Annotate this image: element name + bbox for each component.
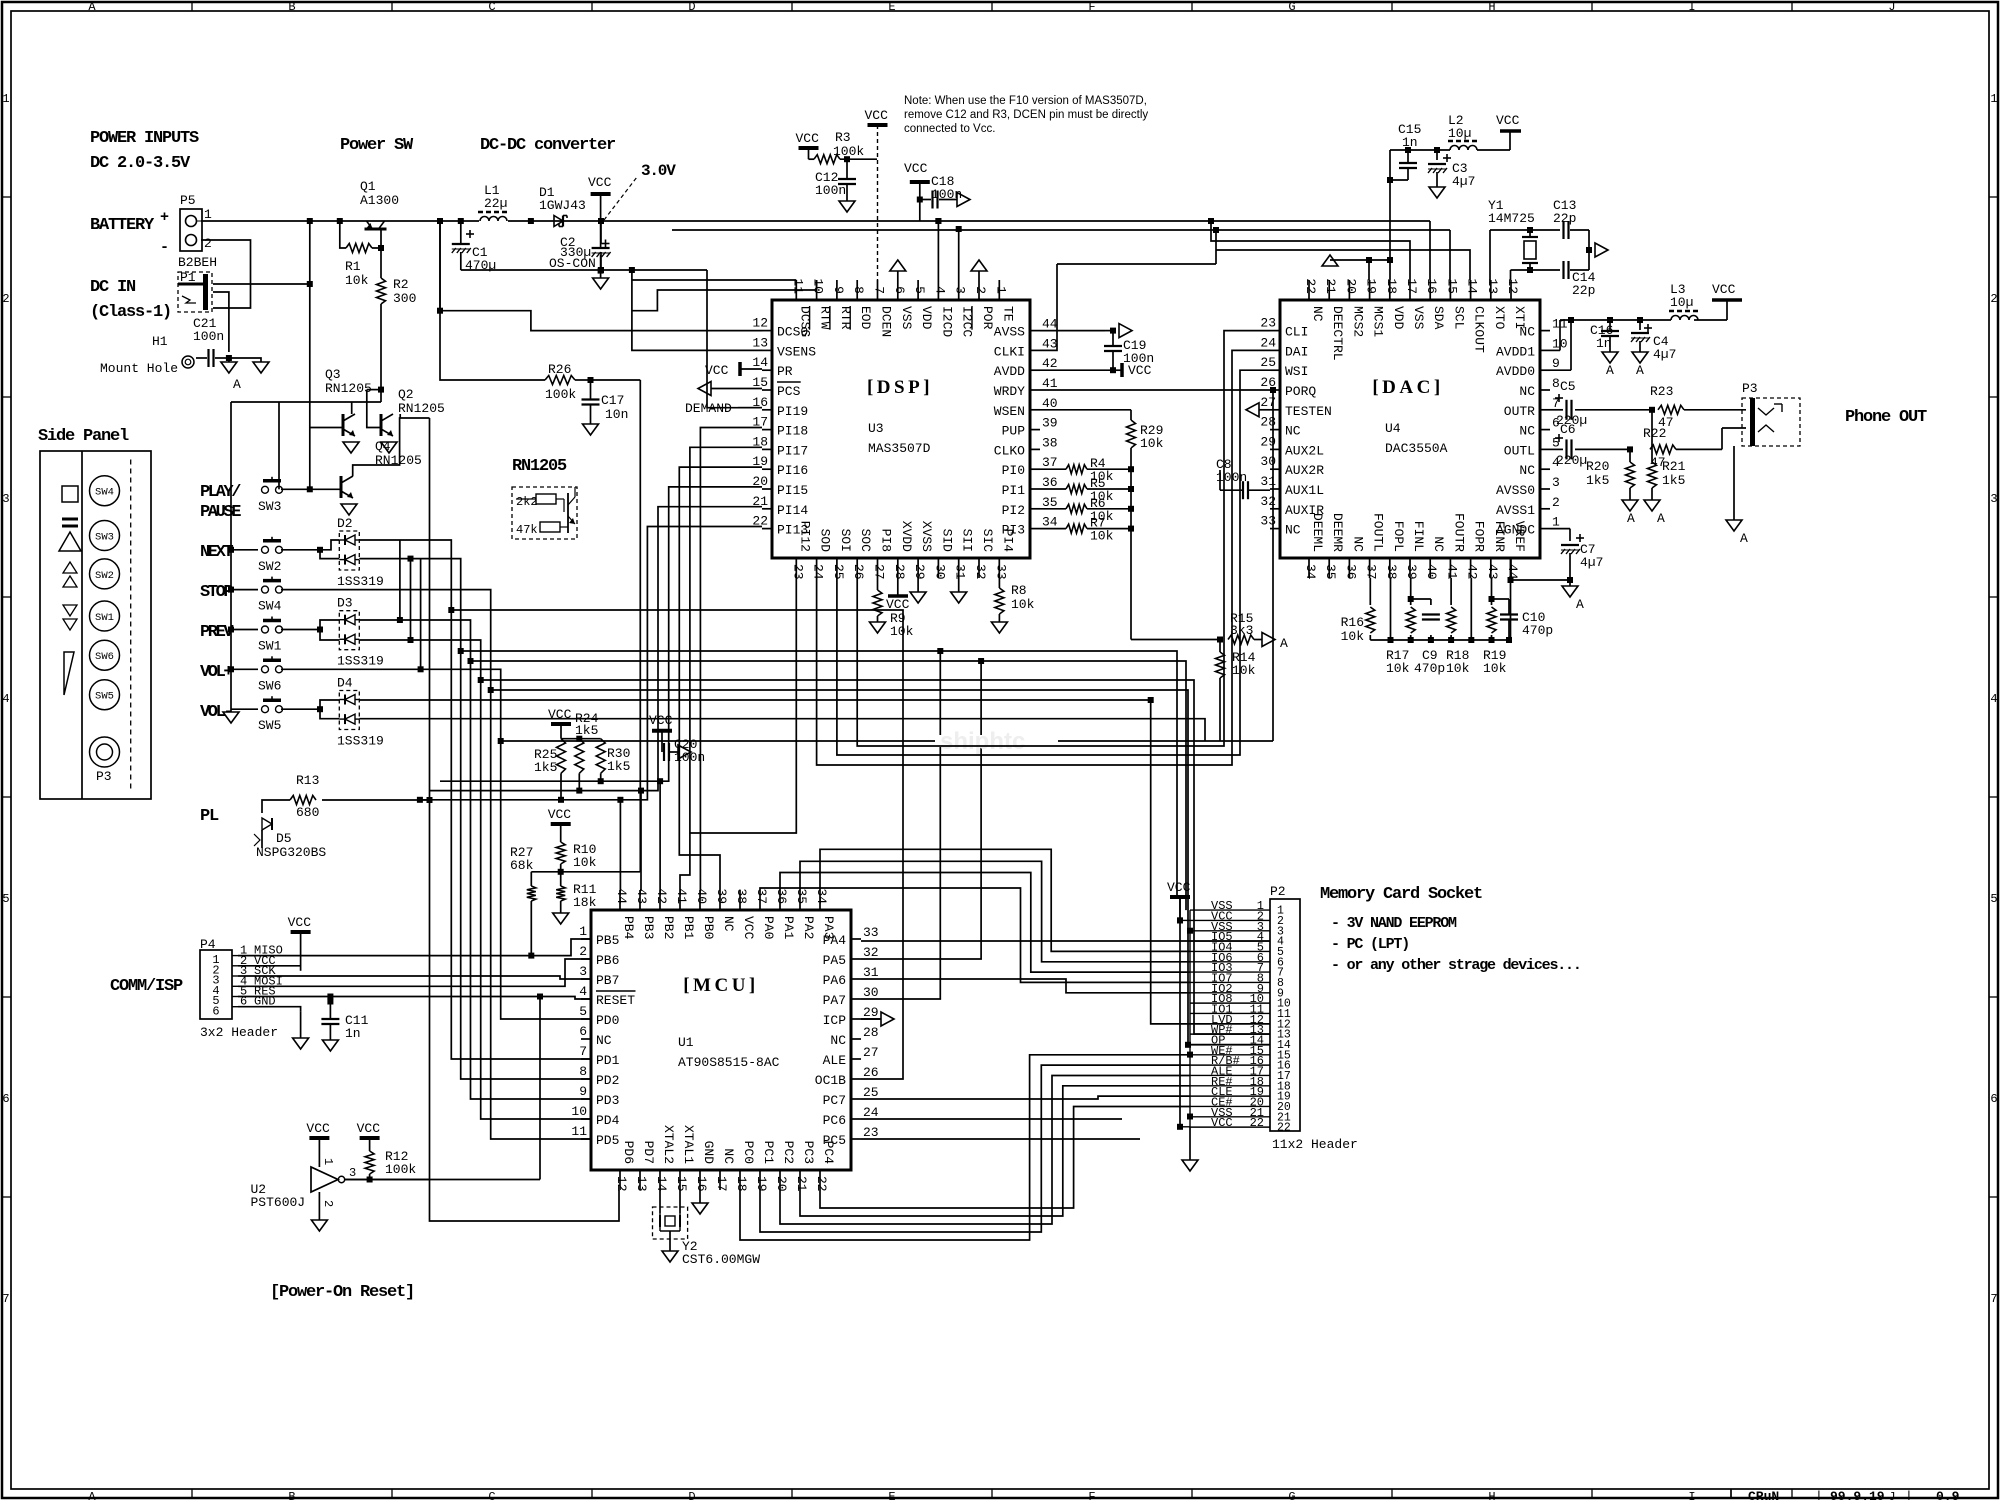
svg-text:PB0: PB0 [701, 916, 716, 939]
svg-text:A: A [1280, 636, 1288, 651]
svg-text:NC: NC [1310, 306, 1325, 322]
svg-text:9: 9 [831, 286, 846, 294]
svg-text:XTAL2: XTAL2 [661, 1125, 676, 1164]
svg-text:39: 39 [1042, 416, 1058, 431]
svg-text:CRuN: CRuN [1748, 1489, 1779, 1500]
svg-text:A: A [1740, 531, 1748, 546]
svg-text:33: 33 [863, 925, 879, 940]
svg-text:DCEN: DCEN [879, 306, 894, 337]
svg-text:PI15: PI15 [777, 483, 808, 498]
svg-text:R23: R23 [1650, 384, 1673, 399]
svg-text:38: 38 [1384, 564, 1399, 580]
svg-text:1n: 1n [345, 1026, 361, 1041]
svg-text:PC6: PC6 [823, 1113, 846, 1128]
svg-text:1k5: 1k5 [534, 760, 557, 775]
svg-text:RESET: RESET [596, 993, 635, 1008]
svg-text:100k: 100k [545, 387, 576, 402]
svg-text:100n: 100n [193, 329, 224, 344]
svg-text:2k2: 2k2 [516, 495, 538, 509]
svg-text:10k: 10k [1232, 663, 1256, 678]
svg-text:Note: When use the F10 version: Note: When use the F10 version of MAS350… [904, 95, 1147, 107]
svg-text:40: 40 [1424, 564, 1439, 580]
svg-text:NC: NC [596, 1033, 612, 1048]
svg-text:25: 25 [863, 1085, 879, 1100]
svg-text:42: 42 [654, 888, 669, 904]
svg-text:39: 39 [714, 888, 729, 904]
svg-text:NC: NC [1519, 463, 1535, 478]
svg-text:FOUTR: FOUTR [1451, 513, 1466, 552]
svg-text:I: I [1688, 0, 1695, 14]
svg-text:NC: NC [1519, 384, 1535, 399]
svg-text:PD5: PD5 [596, 1133, 619, 1148]
svg-text:SOI: SOI [838, 529, 853, 552]
svg-text:SW3: SW3 [95, 532, 114, 544]
svg-text:D4: D4 [337, 676, 353, 691]
svg-text:U3: U3 [868, 421, 884, 436]
svg-text:35: 35 [794, 888, 809, 904]
svg-text:SW2: SW2 [95, 570, 114, 582]
svg-text:4: 4 [932, 286, 947, 294]
svg-text:OC1B: OC1B [815, 1073, 846, 1088]
svg-text:GND: GND [701, 1141, 716, 1165]
svg-text:1: 1 [993, 286, 1008, 294]
svg-text:PB3: PB3 [641, 916, 656, 939]
svg-text:6: 6 [892, 286, 907, 294]
svg-text:17: 17 [714, 1176, 729, 1192]
svg-text:OS-CON: OS-CON [549, 256, 596, 271]
svg-text:VCC: VCC [1712, 282, 1736, 297]
svg-text:PD0: PD0 [596, 1013, 619, 1028]
svg-text:10n: 10n [605, 407, 628, 422]
svg-text:VCC: VCC [306, 1121, 330, 1136]
svg-text:32: 32 [973, 564, 988, 580]
svg-text:A: A [1657, 511, 1665, 526]
svg-text:J: J [1888, 1490, 1895, 1500]
svg-text:3: 3 [1552, 475, 1560, 490]
svg-text:PC3: PC3 [801, 1141, 816, 1164]
svg-text:RN1205: RN1205 [512, 457, 567, 476]
svg-text:5: 5 [579, 1004, 587, 1019]
svg-text:3: 3 [953, 286, 968, 294]
svg-text:PAUSE: PAUSE [200, 503, 241, 522]
svg-text:AVSS1: AVSS1 [1496, 503, 1535, 518]
svg-text:SW6: SW6 [95, 651, 114, 663]
svg-text:1: 1 [2, 92, 9, 106]
svg-text:shiphtc: shiphtc [940, 728, 1025, 755]
svg-text:ALE: ALE [823, 1053, 847, 1068]
svg-text:5: 5 [2, 892, 9, 906]
svg-text:WSI: WSI [1285, 364, 1308, 379]
svg-text:PI12: PI12 [797, 521, 812, 552]
svg-text:22: 22 [814, 1176, 829, 1192]
svg-text:100n: 100n [815, 183, 846, 198]
svg-text:10: 10 [811, 278, 826, 294]
svg-text:Mount Hole: Mount Hole [100, 361, 178, 376]
svg-text:3: 3 [579, 964, 587, 979]
svg-text:DC 2.0-3.5V: DC 2.0-3.5V [90, 154, 191, 173]
svg-text:8: 8 [851, 286, 866, 294]
svg-text:SID: SID [939, 529, 954, 553]
svg-text:AUX2R: AUX2R [1285, 463, 1324, 478]
svg-text:PD4: PD4 [596, 1113, 620, 1128]
svg-text:23: 23 [790, 564, 805, 580]
svg-text:PORQ: PORQ [1285, 384, 1316, 399]
svg-text:PL: PL [200, 807, 219, 826]
svg-text:4: 4 [2, 692, 9, 706]
svg-text:WSEN: WSEN [994, 404, 1025, 419]
svg-text:VCC: VCC [588, 175, 612, 190]
svg-text:8: 8 [579, 1064, 587, 1079]
svg-text:Side Panel: Side Panel [38, 427, 129, 446]
svg-text:U1: U1 [678, 1035, 694, 1050]
svg-text:2: 2 [204, 236, 212, 251]
svg-text:36: 36 [1042, 475, 1058, 490]
svg-text:680: 680 [296, 805, 319, 820]
svg-text:SW4: SW4 [95, 487, 114, 499]
svg-text:36: 36 [1343, 564, 1358, 580]
svg-text:F: F [1088, 0, 1095, 14]
svg-text:PB6: PB6 [596, 953, 619, 968]
svg-text:14: 14 [752, 355, 768, 370]
svg-text:10k: 10k [1011, 597, 1035, 612]
svg-text:FOPR: FOPR [1472, 521, 1487, 552]
svg-text:VDD: VDD [919, 306, 934, 330]
svg-text:9: 9 [1552, 356, 1560, 371]
svg-text:FINR: FINR [1492, 521, 1507, 552]
svg-text:18k: 18k [573, 895, 597, 910]
svg-text:14: 14 [1465, 278, 1480, 294]
svg-text:D3: D3 [337, 596, 353, 611]
svg-text:C: C [488, 0, 495, 14]
svg-text:AVSS: AVSS [994, 325, 1025, 340]
svg-text:25: 25 [1260, 355, 1276, 370]
svg-text:PA1: PA1 [781, 916, 796, 940]
svg-text:1: 1 [579, 924, 587, 939]
svg-text:AVDD0: AVDD0 [1496, 364, 1535, 379]
svg-text:99.9.19: 99.9.19 [1830, 1489, 1885, 1500]
svg-text:R3: R3 [835, 130, 851, 145]
svg-text:34: 34 [1042, 515, 1058, 530]
svg-text:4µ7: 4µ7 [1580, 555, 1603, 570]
svg-text:22p: 22p [1553, 211, 1576, 226]
svg-text:DAC3550A: DAC3550A [1385, 441, 1448, 456]
svg-text:220µ: 220µ [1556, 453, 1587, 468]
svg-text:44: 44 [614, 888, 629, 904]
svg-text:Q2: Q2 [398, 387, 414, 402]
svg-text:A: A [1576, 597, 1584, 612]
svg-text:Q4: Q4 [375, 439, 391, 454]
svg-text:PI0: PI0 [1002, 463, 1025, 478]
svg-text:1: 1 [1552, 515, 1560, 530]
svg-text:5: 5 [1990, 892, 1997, 906]
svg-text:20: 20 [774, 1176, 789, 1192]
svg-text:P2: P2 [1270, 884, 1286, 899]
svg-text:22: 22 [1277, 1122, 1291, 1135]
svg-text:[DSP]: [DSP] [867, 377, 933, 398]
svg-text:SOD: SOD [818, 529, 833, 553]
svg-text:NC: NC [1431, 536, 1446, 552]
svg-text:[Power-On Reset]: [Power-On Reset] [270, 1283, 414, 1302]
svg-text:VSS: VSS [899, 306, 914, 330]
svg-text:27: 27 [863, 1045, 879, 1060]
svg-text:4µ7: 4µ7 [1452, 174, 1475, 189]
svg-text:EOD: EOD [858, 306, 873, 330]
svg-text:VOL+: VOL+ [200, 663, 233, 682]
svg-text:J: J [1888, 0, 1895, 14]
svg-text:PB7: PB7 [596, 973, 619, 988]
svg-text:0.9: 0.9 [1936, 1489, 1960, 1500]
svg-text:PST600J: PST600J [251, 1195, 306, 1210]
svg-text:33: 33 [993, 564, 1008, 580]
svg-text:+: + [160, 209, 169, 226]
svg-text:6: 6 [1990, 1092, 1997, 1106]
svg-text:[DAC]: [DAC] [1372, 377, 1443, 398]
svg-text:1SS319: 1SS319 [337, 574, 384, 589]
svg-text:PB1: PB1 [681, 916, 696, 940]
svg-text:PUP: PUP [1002, 424, 1026, 439]
svg-text:R22: R22 [1643, 426, 1666, 441]
svg-text:SW1: SW1 [258, 639, 282, 654]
svg-text:470p: 470p [1522, 623, 1553, 638]
svg-text:Q3: Q3 [325, 367, 341, 382]
svg-text:1: 1 [321, 1158, 335, 1165]
svg-text:R16: R16 [1341, 615, 1364, 630]
svg-text:24: 24 [1260, 335, 1276, 350]
svg-text:1: 1 [1990, 92, 1997, 106]
svg-text:CLI: CLI [1285, 325, 1308, 340]
svg-text:35: 35 [1042, 495, 1058, 510]
svg-text:10: 10 [571, 1104, 587, 1119]
svg-text:PI4: PI4 [1000, 529, 1015, 553]
svg-text:31: 31 [863, 965, 879, 980]
svg-text:PI16: PI16 [777, 463, 808, 478]
svg-text:16: 16 [1424, 278, 1439, 294]
svg-text:TE: TE [1000, 306, 1015, 322]
svg-text:PI14: PI14 [777, 503, 808, 518]
svg-text:6: 6 [579, 1024, 587, 1039]
svg-text:NC: NC [721, 916, 736, 932]
svg-text:8: 8 [1552, 376, 1560, 391]
svg-text:WRDY: WRDY [994, 384, 1025, 399]
svg-text:SIC: SIC [980, 529, 995, 553]
svg-text:P5: P5 [180, 193, 196, 208]
svg-text:DEEMR: DEEMR [1330, 513, 1345, 552]
svg-text:NC: NC [1285, 523, 1301, 538]
svg-text:MCS1: MCS1 [1371, 306, 1386, 337]
svg-text:1k5: 1k5 [1662, 473, 1685, 488]
svg-text:BATTERY: BATTERY [90, 216, 155, 235]
svg-text:6: 6 [2, 1092, 9, 1106]
svg-text:R21: R21 [1662, 459, 1686, 474]
svg-text:40: 40 [1042, 396, 1058, 411]
svg-text:PI2: PI2 [1002, 503, 1025, 518]
svg-text:42: 42 [1042, 356, 1058, 371]
svg-text:2: 2 [579, 944, 587, 959]
svg-text:[MCU]: [MCU] [683, 975, 759, 996]
svg-text:22µ: 22µ [484, 196, 507, 211]
svg-text:34: 34 [814, 888, 829, 904]
svg-text:47k: 47k [516, 523, 538, 537]
svg-text:PI8: PI8 [879, 529, 894, 552]
svg-text:2: 2 [1990, 292, 1997, 306]
svg-text:4: 4 [579, 984, 587, 999]
svg-text:34: 34 [1303, 564, 1318, 580]
svg-text:SOC: SOC [858, 529, 873, 553]
svg-text:26: 26 [851, 564, 866, 580]
svg-text:1k5: 1k5 [607, 759, 630, 774]
svg-text:NC: NC [721, 1148, 736, 1164]
svg-text:30: 30 [863, 985, 879, 1000]
svg-text:PD6: PD6 [621, 1141, 636, 1164]
svg-text:PC7: PC7 [823, 1093, 846, 1108]
svg-text:PA3: PA3 [821, 916, 836, 939]
svg-text:VCC: VCC [548, 807, 572, 822]
svg-text:28: 28 [863, 1025, 879, 1040]
svg-text:12: 12 [752, 316, 768, 331]
svg-text:PA5: PA5 [823, 953, 846, 968]
svg-text:35: 35 [1323, 564, 1338, 580]
svg-text:19: 19 [754, 1176, 769, 1192]
svg-text:PC0: PC0 [741, 1141, 756, 1164]
svg-text:CST6.00MGW: CST6.00MGW [682, 1252, 760, 1267]
svg-text:5: 5 [912, 286, 927, 294]
svg-text:3.0V: 3.0V [641, 162, 676, 180]
svg-text:SW2: SW2 [258, 559, 281, 574]
svg-text:27: 27 [872, 564, 887, 580]
svg-text:OUTL: OUTL [1504, 443, 1535, 458]
svg-text:VCC: VCC [796, 131, 820, 146]
svg-text:37: 37 [1364, 564, 1379, 580]
svg-text:43: 43 [1042, 336, 1058, 351]
svg-text:POR: POR [980, 306, 995, 330]
svg-text:3: 3 [1990, 492, 1997, 506]
svg-text:NC: NC [1519, 424, 1535, 439]
svg-text:1SS319: 1SS319 [337, 734, 384, 749]
svg-text:D: D [688, 0, 695, 14]
svg-text:4: 4 [1990, 692, 1997, 706]
svg-text:23: 23 [1260, 316, 1276, 331]
svg-text:10k: 10k [1140, 436, 1164, 451]
svg-text:PA0: PA0 [761, 916, 776, 939]
svg-text:A: A [1636, 363, 1644, 378]
svg-text:SDA: SDA [1431, 306, 1446, 330]
svg-text:7: 7 [2, 1292, 9, 1306]
svg-text:NC: NC [830, 1033, 846, 1048]
svg-text:XTAL1: XTAL1 [681, 1125, 696, 1164]
svg-text:AUX2L: AUX2L [1285, 443, 1324, 458]
svg-text:A: A [1627, 511, 1635, 526]
svg-text:43: 43 [1485, 564, 1500, 580]
svg-text:VCC: VCC [865, 108, 889, 123]
svg-text:VCC: VCC [1496, 113, 1520, 128]
svg-text:NSPG320BS: NSPG320BS [256, 845, 326, 860]
svg-text:NC: NC [1350, 536, 1365, 552]
svg-text:19: 19 [1364, 278, 1379, 294]
svg-text:FOUTL: FOUTL [1371, 513, 1386, 552]
svg-text:TESTEN: TESTEN [1285, 404, 1332, 419]
svg-text:31: 31 [953, 564, 968, 580]
svg-text:- 3V NAND EEPROM: - 3V NAND EEPROM [1331, 915, 1457, 932]
svg-text:2: 2 [2, 292, 9, 306]
svg-text:SW5: SW5 [95, 691, 114, 703]
svg-text:10k: 10k [890, 624, 914, 639]
svg-text:39: 39 [1404, 564, 1419, 580]
svg-text:SCL: SCL [1451, 306, 1466, 329]
svg-text:E: E [888, 1490, 895, 1500]
svg-text:29: 29 [863, 1005, 879, 1020]
svg-text:VCC: VCC [548, 707, 572, 722]
svg-text:D2: D2 [337, 516, 353, 531]
svg-text:A: A [1606, 363, 1614, 378]
svg-text:3: 3 [349, 1166, 356, 1180]
svg-text:28: 28 [892, 564, 907, 580]
svg-text:SW1: SW1 [95, 612, 114, 624]
svg-text:3: 3 [2, 492, 9, 506]
svg-text:H: H [1488, 0, 1495, 14]
svg-text:3x2 Header: 3x2 Header [200, 1025, 278, 1040]
svg-text:C5: C5 [1560, 379, 1576, 394]
svg-text:14M725: 14M725 [1488, 211, 1535, 226]
svg-text:VCC: VCC [741, 916, 756, 940]
svg-text:2: 2 [973, 286, 988, 294]
svg-text:E: E [888, 0, 895, 14]
svg-text:VCC: VCC [1128, 363, 1152, 378]
svg-text:21: 21 [1323, 278, 1338, 294]
svg-text:SW6: SW6 [258, 678, 281, 693]
svg-text:68k: 68k [510, 858, 534, 873]
svg-text:1GWJ43: 1GWJ43 [539, 198, 586, 213]
svg-text:DC IN: DC IN [90, 278, 136, 297]
svg-text:10k: 10k [1386, 661, 1410, 676]
svg-text:MAS3507D: MAS3507D [868, 441, 931, 456]
svg-text:PD1: PD1 [596, 1053, 620, 1068]
svg-text:R20: R20 [1586, 459, 1609, 474]
svg-text:VSS: VSS [1411, 306, 1426, 330]
svg-text:1SS319: 1SS319 [337, 654, 384, 669]
svg-text:Phone OUT: Phone OUT [1845, 408, 1927, 427]
svg-text:PI19: PI19 [777, 404, 808, 419]
svg-text:10µ: 10µ [1448, 126, 1471, 141]
svg-text:PA6: PA6 [823, 973, 846, 988]
svg-text:17: 17 [1404, 278, 1419, 294]
svg-text:30: 30 [932, 564, 947, 580]
svg-text:R1: R1 [345, 259, 361, 274]
svg-text:- PC (LPT): - PC (LPT) [1331, 936, 1409, 953]
svg-text:ICP: ICP [823, 1013, 847, 1028]
svg-text:B2BEH: B2BEH [178, 255, 217, 270]
svg-text:AVDD: AVDD [994, 364, 1025, 379]
svg-text:13: 13 [1485, 278, 1500, 294]
svg-text:PR: PR [777, 364, 793, 379]
svg-text:VCC: VCC [357, 1121, 381, 1136]
svg-text:H1: H1 [152, 334, 168, 349]
svg-text:XTO: XTO [1492, 306, 1507, 330]
svg-text:PCS: PCS [777, 384, 801, 399]
svg-text:18: 18 [734, 1176, 749, 1192]
svg-text:4µ7: 4µ7 [1653, 347, 1676, 362]
svg-text:I2CD: I2CD [939, 306, 954, 337]
svg-text:B: B [288, 0, 295, 14]
svg-text:24: 24 [811, 564, 826, 580]
svg-text:RN1205: RN1205 [325, 381, 372, 396]
svg-text:Power SW: Power SW [340, 136, 414, 155]
svg-text:13: 13 [634, 1176, 649, 1192]
svg-text:PB2: PB2 [661, 916, 676, 939]
svg-text:D5: D5 [276, 831, 292, 846]
svg-text:|: | [1815, 1489, 1823, 1500]
svg-text:44: 44 [1042, 317, 1058, 332]
svg-text:F: F [1088, 1490, 1095, 1500]
